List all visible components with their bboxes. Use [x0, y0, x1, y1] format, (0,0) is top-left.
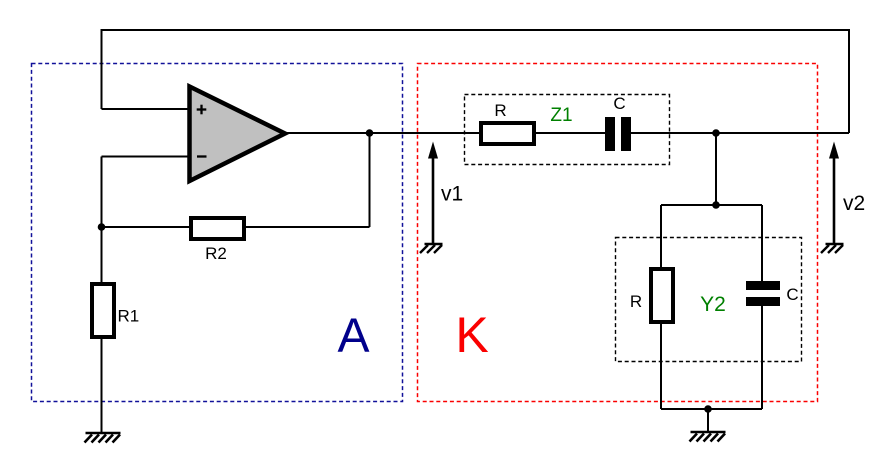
node inverting — [98, 223, 106, 231]
op-amp U1 — [190, 87, 286, 182]
wire feedback top — [102, 30, 850, 133]
wire Y2 top — [661, 204, 762, 206]
svg-text:R2: R2 — [205, 244, 227, 263]
svg-text:v2: v2 — [843, 192, 865, 215]
wire Y2 ground stub — [707, 409, 709, 432]
Y2 dashed box — [616, 238, 802, 362]
svg-text:Z1: Z1 — [550, 105, 572, 126]
resistor R2 — [191, 218, 244, 239]
wire main output left — [285, 132, 607, 134]
node Y2 bottom — [704, 405, 712, 413]
wire R2 right — [244, 226, 370, 228]
wire main output right — [629, 132, 849, 134]
wire inverting rail down — [101, 157, 103, 228]
wire Y2 feed vertical — [715, 133, 717, 205]
resistor R1 — [92, 284, 114, 337]
wire Y2 right branch upper — [761, 205, 763, 285]
svg-text:v1: v1 — [441, 183, 463, 206]
svg-text:A: A — [337, 310, 369, 363]
svg-text:C: C — [786, 285, 798, 304]
wire R2 left — [102, 226, 193, 228]
wire Y2 right branch lower — [761, 302, 763, 409]
block A dashed box — [32, 64, 403, 402]
svg-text:R: R — [494, 101, 506, 120]
svg-text:C: C — [613, 94, 625, 113]
capacitor C of Y2 — [746, 281, 780, 306]
resistor R of Z1 — [481, 123, 534, 144]
Z1 dashed box — [465, 95, 670, 165]
v1 probe arrow — [428, 142, 438, 245]
svg-text:K: K — [455, 307, 488, 363]
capacitor C of Z1 — [605, 117, 631, 151]
wire Y2 bottom — [661, 408, 762, 410]
wire output feedback vertical — [369, 133, 371, 227]
node Y2 top — [712, 201, 720, 209]
ground R1 — [85, 433, 121, 443]
resistor R of Y2 — [651, 269, 673, 322]
wire inverting input — [102, 156, 191, 158]
svg-text:Y2: Y2 — [700, 293, 726, 316]
wire non-inverting input — [102, 108, 191, 110]
node output — [366, 129, 374, 137]
block K dashed box — [418, 64, 818, 402]
ground v2 — [821, 244, 844, 253]
v2 probe arrow — [829, 142, 839, 245]
wire R1 column — [101, 227, 103, 433]
ground v1 — [420, 244, 443, 253]
svg-text:R: R — [630, 292, 642, 311]
svg-text:R1: R1 — [118, 307, 140, 326]
wire Y2 left branch — [660, 205, 662, 409]
node main-Y2 — [712, 129, 720, 137]
ground Y2 — [690, 432, 726, 442]
